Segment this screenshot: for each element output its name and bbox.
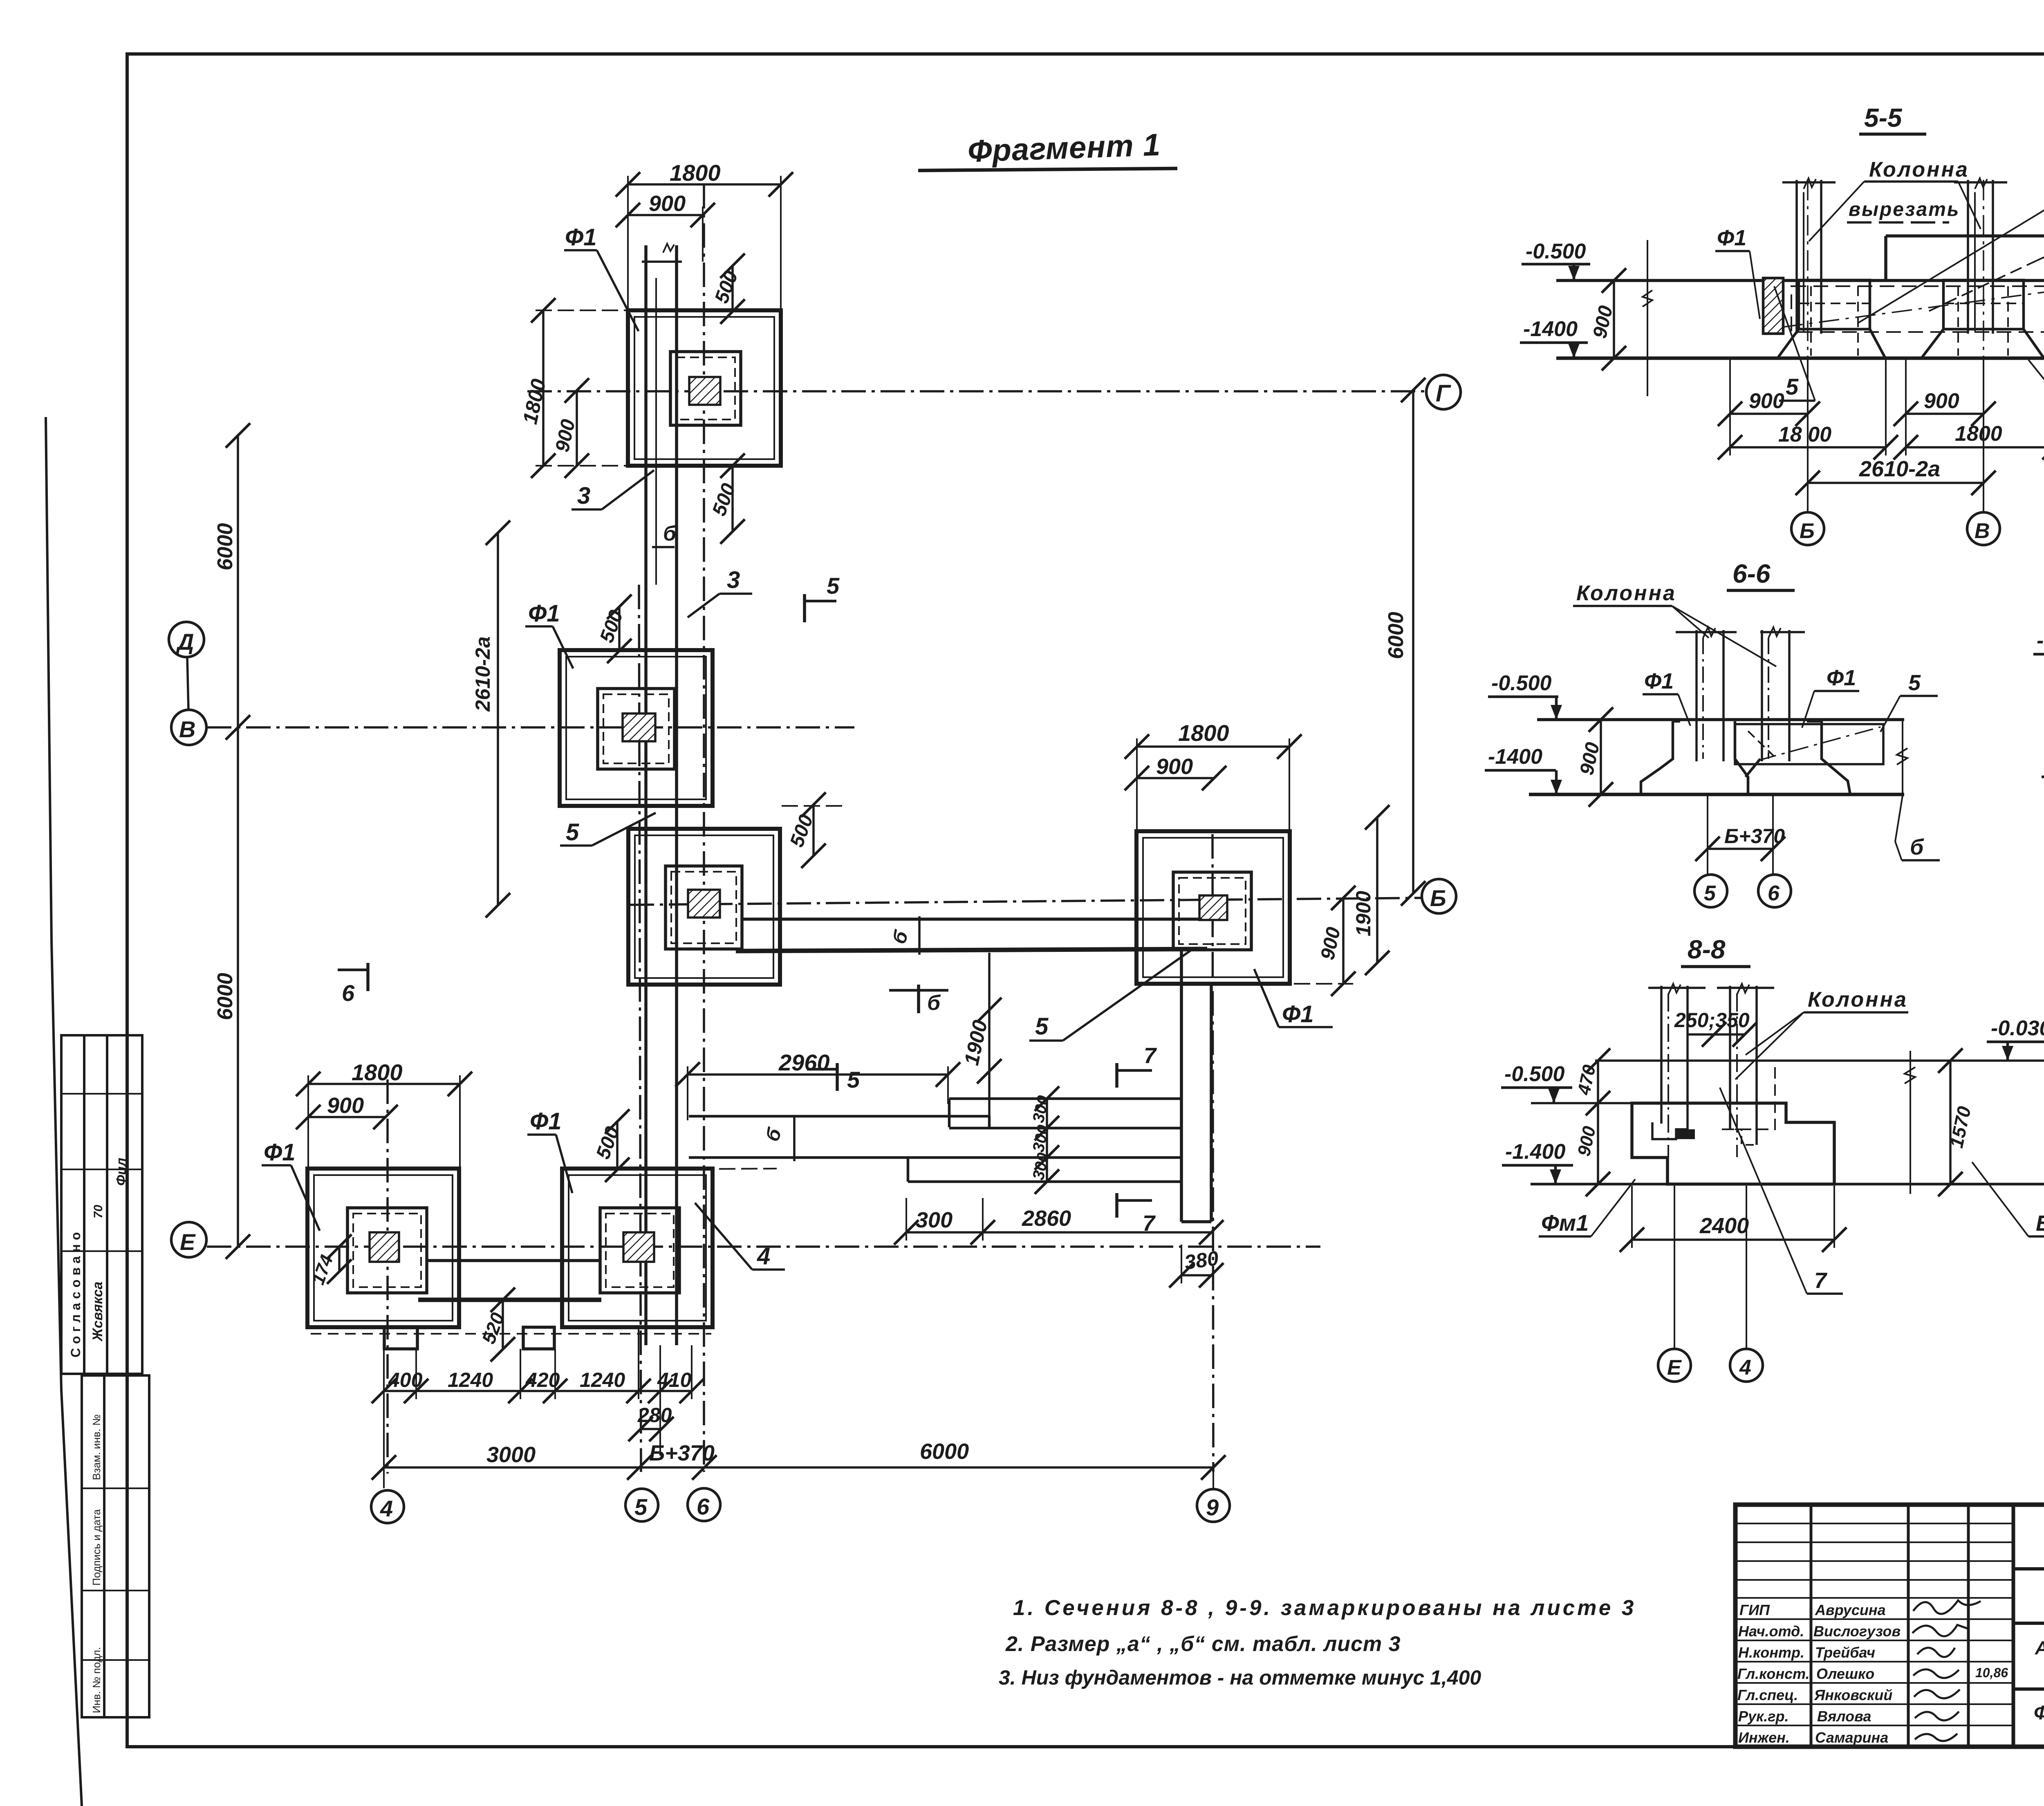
dim 250;350 <box>1674 1009 1750 1032</box>
svg-text:Колонна: Колонна <box>1576 581 1676 605</box>
svg-text:-1.400: -1.400 <box>1505 1140 1566 1164</box>
wall aux thin line <box>655 278 657 585</box>
dim 500 right of axis5 Е foundation <box>616 1122 619 1170</box>
svg-text:1800: 1800 <box>1955 422 2002 446</box>
foundation F1 row В plinth <box>598 689 675 769</box>
svg-text:Гл.конст.: Гл.конст. <box>1737 1665 1810 1682</box>
svg-text:5: 5 <box>1704 882 1716 905</box>
svg-text:Административный корпус: Административный корпус <box>2035 1637 2044 1658</box>
hidden dash line under Е foundations <box>311 1333 711 1335</box>
svg-text:6: 6 <box>697 1494 710 1519</box>
svg-text:3: 3 <box>577 482 590 509</box>
svg-text:2610-2а: 2610-2а <box>1859 457 1940 481</box>
vertical strip left edge <box>1180 951 1183 1222</box>
svg-text:7: 7 <box>1144 1043 1157 1068</box>
section 5-5 title <box>1864 103 1903 132</box>
wall top tick <box>642 260 682 263</box>
svg-text:4: 4 <box>757 1243 770 1270</box>
dim 1800 left vertical of Г foundation <box>542 310 545 466</box>
label Колонна 6-6 <box>1576 581 1676 605</box>
bottom dim chain 3000 / Б+370 / 6000 <box>384 1466 1213 1469</box>
left margin lower stamp table <box>82 1375 149 1717</box>
svg-text:Фм1: Фм1 <box>1541 1210 1589 1236</box>
svg-text:5: 5 <box>827 573 840 599</box>
dim 280 <box>641 1428 661 1430</box>
lower walls: line 2 right <box>949 1127 1181 1130</box>
lower walls: step vertical mid <box>988 1116 991 1128</box>
right footing pier <box>1943 280 2024 329</box>
dim 380 <box>1181 1274 1211 1277</box>
foundation Фм1 outline <box>1632 1103 1834 1184</box>
dim 900 below left <box>1730 413 1808 415</box>
svg-text:Ф1: Ф1 <box>530 1108 562 1135</box>
svg-text:Взам. инв. №: Взам. инв. № <box>90 1414 103 1480</box>
svg-text:Ф1: Ф1 <box>1282 1001 1314 1028</box>
columns 6-6 right <box>1761 630 1763 761</box>
long wall line 3 right <box>675 245 678 1345</box>
level mark -1.400 <box>1523 317 1578 341</box>
axis bubble Г <box>1426 375 1461 409</box>
dim 900 rotated 88 <box>1597 1103 1599 1184</box>
left footing pier <box>1799 280 1870 329</box>
svg-text:410: 410 <box>657 1369 692 1391</box>
svg-text:Б+370: Б+370 <box>649 1441 715 1465</box>
axis bubble Е <box>171 1222 206 1257</box>
svg-text:Колонна: Колонна <box>1808 988 1908 1012</box>
dim 1800 top <box>628 183 781 186</box>
section mark 7 top <box>1115 1063 1118 1088</box>
level mark -0.500 <box>1526 240 1586 263</box>
label Б 88 <box>2036 1211 2044 1236</box>
dim 900 above axis9 foundation <box>1137 777 1214 779</box>
axis bubble 5 <box>625 1489 658 1521</box>
svg-text:1900: 1900 <box>1352 891 1375 936</box>
axis row Г dash-dot <box>527 390 1426 393</box>
ribbon footing row Б top line <box>742 918 1202 921</box>
svg-text:250;350: 250;350 <box>1674 1009 1750 1032</box>
extension lines to chain <box>383 1345 385 1399</box>
title Фрагмент 1 <box>967 128 1161 169</box>
foundation F1 row Г plinth <box>670 352 741 425</box>
ground line -0.500 <box>1556 279 2044 282</box>
label 7 88 <box>1814 1268 1828 1293</box>
right footing 6-6 <box>1807 721 1850 794</box>
vertical strip bottom <box>1181 1220 1211 1223</box>
axis bubble Д above В <box>169 622 204 657</box>
svg-text:В: В <box>179 716 195 742</box>
svg-text:Ф1: Ф1 <box>565 224 597 251</box>
dim 500 right of Б foundation <box>812 805 815 856</box>
svg-text:1800: 1800 <box>1178 720 1229 746</box>
columns 8-8 <box>1660 986 1663 1124</box>
foundation F1 row В outer <box>560 650 713 806</box>
dim 520 rotated <box>502 1300 504 1349</box>
column in row Г foundation <box>689 377 720 405</box>
svg-text:Гл.спец.: Гл.спец. <box>1737 1687 1798 1703</box>
right ref line 6-6 <box>1902 720 1903 794</box>
svg-text:2960: 2960 <box>778 1050 830 1075</box>
svg-text:6000: 6000 <box>920 1439 969 1464</box>
dim 2960 <box>688 1073 948 1076</box>
foundation F1 row Б outer <box>628 829 780 985</box>
dim 500 above В foundation <box>618 607 621 651</box>
label 5 right 6-6 <box>1908 671 1921 695</box>
foundation F1 row Е axis4 plinth <box>347 1208 427 1293</box>
svg-text:Е: Е <box>180 1229 196 1255</box>
dim 2610-2a <box>1808 482 1983 484</box>
label Ф1 axis9 foundation <box>1282 1001 1314 1028</box>
svg-text:1. Сечения 8-8 , 9-9. замаркир: 1. Сечения 8-8 , 9-9. замаркированы на л… <box>1013 1596 1636 1620</box>
top level line 88 <box>1595 1059 2044 1062</box>
foundation F1 row Е axis4 outer <box>307 1169 459 1327</box>
svg-text:18 00: 18 00 <box>1778 423 1831 446</box>
svg-text:б: б <box>927 991 941 1015</box>
level -0.500 <box>1491 671 1552 695</box>
labels Ф1 6-6 <box>1644 669 1674 693</box>
label Колонна 8-8 <box>1808 988 1908 1012</box>
axis col 6 dash-dot <box>703 184 705 1472</box>
bubble 4 88 <box>1746 1186 1747 1348</box>
level -1400 <box>1488 745 1542 769</box>
lower walls: line 3 <box>689 1156 1181 1159</box>
bubble В below 5-5 <box>1967 512 2000 545</box>
section mark 5 top <box>803 594 806 622</box>
axis dash verticals through section <box>1807 180 1809 358</box>
bubble Е 88 <box>1674 1186 1675 1348</box>
svg-text:-1400: -1400 <box>1523 317 1578 341</box>
axis col 9 dash-dot <box>1213 834 1213 1472</box>
axis row Е dash-dot <box>207 1245 1320 1248</box>
svg-text:900: 900 <box>1156 754 1193 779</box>
dashed column inside foundation 88 <box>1730 1061 1775 1129</box>
svg-text:Г: Г <box>1436 380 1451 407</box>
svg-text:Янковский: Янковский <box>1814 1687 1892 1703</box>
section mark 6 left <box>366 963 370 991</box>
svg-text:4: 4 <box>380 1496 393 1521</box>
bubble Б below 5-5 <box>1791 512 1824 545</box>
dashed wall outline behind piers <box>1791 286 2044 332</box>
right dim 1900 <box>1376 817 1378 963</box>
pier tab mid <box>523 1327 554 1349</box>
label Колонна <box>1869 158 1969 182</box>
svg-text:5: 5 <box>1786 374 1799 399</box>
lower walls: line 2 left <box>689 1115 989 1118</box>
svg-text:Подпись и дата: Подпись и дата <box>90 1509 103 1586</box>
svg-text:Самарина: Самарина <box>1815 1729 1888 1746</box>
section mark 7 bottom <box>1115 1193 1118 1218</box>
left paper torn edge <box>46 417 82 1806</box>
svg-text:9: 9 <box>1206 1494 1219 1520</box>
foundation F1 row Б axis 9 outer <box>1136 831 1290 984</box>
slab top line -0.030 <box>1886 234 2044 238</box>
label б right 6-6 <box>1910 835 1924 859</box>
label 5 lower left <box>1786 374 1799 399</box>
svg-text:Б: Б <box>1430 885 1446 911</box>
svg-text:6000: 6000 <box>213 973 237 1020</box>
ref line with z 88 <box>1910 1051 1911 1194</box>
dim 2400 <box>1632 1238 1834 1241</box>
column in row Б foundation <box>688 890 720 918</box>
svg-text:5: 5 <box>566 819 579 846</box>
svg-text:б: б <box>1910 835 1924 859</box>
svg-text:Ф1: Ф1 <box>1827 666 1856 690</box>
svg-text:Инв. № подл.: Инв. № подл. <box>90 1647 103 1713</box>
svg-text:3. Низ фундаментов - на отмет: 3. Низ фундаментов - на отметке минус 1,… <box>999 1666 1481 1689</box>
top line 6-6 <box>1537 718 1904 721</box>
dim 900 vertical <box>1613 280 1615 358</box>
svg-text:-0.030: -0.030 <box>1991 1016 2044 1040</box>
dim 174 left of axis4 <box>338 1247 341 1272</box>
dim 470 rotated <box>1597 1061 1599 1103</box>
svg-text:5-5: 5-5 <box>1864 103 1903 132</box>
svg-text:Нач.отд.: Нач.отд. <box>1738 1623 1804 1640</box>
svg-text:6: 6 <box>342 980 355 1006</box>
svg-text:3000: 3000 <box>486 1443 536 1467</box>
svg-text:7: 7 <box>1814 1268 1828 1293</box>
base line -1.400 <box>1556 357 2044 360</box>
pier tab below axis4 foundation <box>384 1327 417 1349</box>
extension to bubbles 6-6 <box>1707 794 1708 875</box>
svg-text:400: 400 <box>388 1369 423 1391</box>
title block left column dividers <box>1810 1505 1813 1747</box>
svg-text:380: 380 <box>1183 1247 1220 1274</box>
diagonal detail line <box>1782 286 2044 327</box>
svg-text:6-6: 6-6 <box>1732 559 1771 588</box>
label б on wall <box>663 522 677 545</box>
bottom dim chain 400-1240-420-1240-410 <box>384 1390 692 1392</box>
axis bubble В <box>171 710 206 745</box>
svg-text:1240: 1240 <box>580 1369 625 1391</box>
link line between Д and В bubbles <box>187 657 188 710</box>
wall between Е foundations top <box>427 1259 600 1262</box>
level -0.030 88 <box>1991 1016 2044 1040</box>
svg-text:Б: Б <box>1800 519 1815 543</box>
svg-text:4: 4 <box>1739 1356 1751 1380</box>
left footing 6-6 <box>1641 721 1673 794</box>
column in axis5 row Е foundation <box>623 1232 654 1262</box>
section 8-8 title <box>1688 935 1726 964</box>
svg-text:Б+370: Б+370 <box>1724 825 1785 848</box>
label Ф1 axis4 <box>264 1139 296 1166</box>
svg-text:8-8: 8-8 <box>1688 935 1726 964</box>
dim 900 above axis4 foundation <box>308 1116 385 1118</box>
svg-text:Ф1: Ф1 <box>264 1139 296 1166</box>
svg-text:Трейбач: Трейбач <box>1815 1644 1875 1661</box>
title block left rows <box>1735 1523 2013 1725</box>
axis row Б dash-dot <box>630 898 1422 905</box>
svg-text:1800: 1800 <box>352 1059 403 1085</box>
svg-text:5: 5 <box>1908 671 1921 695</box>
svg-text:Ф1: Ф1 <box>1644 669 1674 693</box>
dim 900 vertical 6-6 <box>1600 720 1602 794</box>
column in axis4 foundation <box>370 1232 399 1262</box>
svg-text:Б: Б <box>2036 1211 2044 1236</box>
svg-text:280: 280 <box>637 1404 672 1427</box>
label вырезать <box>1849 199 1960 220</box>
dim 900 right of axis9 foundation <box>1342 898 1345 984</box>
dim 900 left vertical of Г foundation <box>576 390 578 466</box>
level -0.500 88 <box>1504 1062 1565 1086</box>
ribbon footing row Б bottom line <box>736 949 1207 951</box>
svg-text:Согласовано: Согласовано <box>68 1228 83 1357</box>
svg-text:Ф1: Ф1 <box>1717 226 1746 250</box>
wall top hook mark <box>663 244 674 253</box>
columns 6-6 left <box>1695 630 1698 761</box>
svg-text:Ф1: Ф1 <box>528 600 560 627</box>
dim 1800 below right <box>1906 446 2044 449</box>
axis bubble 9 <box>1197 1489 1230 1522</box>
svg-text:900: 900 <box>1749 389 1784 413</box>
section mark 6 (Тб) right <box>917 985 920 1013</box>
svg-text:2610-2а: 2610-2а <box>471 637 494 712</box>
svg-text:-0.500: -0.500 <box>1491 671 1552 695</box>
hatched wall strip <box>1763 278 1783 334</box>
svg-text:900: 900 <box>327 1093 364 1118</box>
axis bubble 6 <box>688 1488 720 1521</box>
axis row В dash-dot <box>207 726 854 729</box>
svg-text:Вялова: Вялова <box>1817 1708 1871 1725</box>
label 4 leader <box>757 1243 770 1270</box>
vertical strip right edge <box>1210 984 1213 1222</box>
axis col 5 dash-dot <box>639 585 641 1472</box>
label 3 above В foundation <box>727 567 740 593</box>
base line 88 <box>1531 1183 2044 1186</box>
svg-text:Фил: Фил <box>114 1158 129 1186</box>
label Ф1 upper left <box>1717 226 1746 250</box>
right dim 6000 between Г and Б <box>1412 390 1414 893</box>
svg-text:6000: 6000 <box>1384 612 1408 659</box>
label Фм1 <box>1541 1210 1589 1236</box>
svg-text:Фундаменты. Фрагмент 1.: Фундаменты. Фрагмент 1. <box>2034 1702 2044 1724</box>
foundation F1 axis 9 plinth <box>1173 872 1251 950</box>
svg-text:Е: Е <box>1667 1356 1682 1380</box>
svg-text:6000: 6000 <box>213 523 237 570</box>
bubble 6 below 6-6 <box>1758 875 1791 907</box>
svg-text:Колонна: Колонна <box>1869 158 1969 182</box>
section 6-6 title <box>1732 559 1771 588</box>
svg-text:Фрагмент 1: Фрагмент 1 <box>967 128 1161 169</box>
long wall line 3 left <box>644 245 648 1345</box>
svg-text:5: 5 <box>1035 1013 1049 1040</box>
dim 1800 above axis9 foundation <box>1137 745 1289 748</box>
svg-text:2400: 2400 <box>1699 1214 1749 1238</box>
svg-text:-0.500: -0.500 <box>1504 1062 1565 1086</box>
column left pair <box>1795 180 1798 334</box>
axis col 4 dash-dot <box>386 1079 389 1474</box>
leader 5 to ribbon <box>1035 1013 1049 1040</box>
notes text block <box>999 1596 1636 1689</box>
dim 1570 rotated <box>1949 1061 1952 1184</box>
wall rect dashed 6-6 <box>1735 724 1883 764</box>
dim 500 lower right of Г foundation <box>731 466 734 532</box>
left dim line 6000/6000 <box>237 435 239 1247</box>
foundation F1 row Е axis5 outer <box>562 1169 713 1327</box>
label 3 under Г foundation <box>577 482 590 509</box>
svg-text:10,86: 10,86 <box>1975 1665 2008 1680</box>
svg-text:5: 5 <box>847 1067 860 1093</box>
svg-text:Вислогузов: Вислогузов <box>1813 1623 1901 1640</box>
dims 300 300 300 rotated <box>1046 1099 1048 1182</box>
svg-text:-0.500: -0.500 <box>1526 240 1586 263</box>
label б rotated on ribbon <box>888 928 913 947</box>
title block staff labels <box>1737 1602 2008 1746</box>
extension lines <box>1729 358 1731 455</box>
bubble 5 below 6-6 <box>1694 875 1727 907</box>
column right pair <box>1967 180 1969 334</box>
level -0.080 <box>2037 629 2044 653</box>
dim 500 upper right of Г foundation <box>731 266 734 312</box>
svg-text:вырезать: вырезать <box>1849 199 1960 220</box>
svg-text:5: 5 <box>634 1494 648 1520</box>
svg-text:6: 6 <box>1768 882 1780 905</box>
section mark 5 mid <box>836 1063 839 1091</box>
svg-text:70: 70 <box>92 1205 105 1218</box>
svg-text:Аврусина: Аврусина <box>1815 1602 1886 1618</box>
svg-text:300: 300 <box>916 1208 953 1232</box>
svg-text:2860: 2860 <box>1022 1206 1071 1231</box>
svg-text:Жсвякса: Жсвякса <box>90 1281 105 1342</box>
ref line with break <box>1647 240 1648 396</box>
left dim 2610-2a <box>497 533 499 905</box>
svg-text:ГИП: ГИП <box>1739 1602 1770 1618</box>
svg-text:900: 900 <box>1924 389 1959 413</box>
wall between Е foundations bottom <box>418 1298 601 1302</box>
dim 1800 above axis4 foundation <box>308 1083 460 1085</box>
column in row В foundation <box>623 713 655 741</box>
level -1.400 88 <box>1505 1140 1566 1164</box>
svg-text:В: В <box>1975 519 1990 543</box>
left margin upper stamp table <box>61 1035 142 1374</box>
axis bubble 4 <box>371 1490 404 1523</box>
svg-text:420: 420 <box>525 1369 560 1391</box>
label Ф1 row В <box>528 600 560 627</box>
svg-text:Д: Д <box>176 629 194 655</box>
svg-text:Олешко: Олешко <box>1816 1665 1874 1682</box>
svg-text:-0.080: -0.080 <box>2037 629 2044 653</box>
svg-text:900: 900 <box>649 191 686 216</box>
inner steps 88 <box>1652 1122 1688 1139</box>
label Ф1 row Г <box>565 224 597 251</box>
svg-text:1240: 1240 <box>448 1369 493 1391</box>
main title block outer <box>1735 1505 2044 1747</box>
main area: 416-1-20 3.87-КЖ cell <box>2013 1567 2044 1570</box>
dim 300 / 2860 bottom <box>906 1231 1211 1234</box>
svg-text:-1400: -1400 <box>1488 745 1542 769</box>
lower walls: line 1 <box>949 1097 1181 1100</box>
foundation F1 row Е axis5 plinth <box>600 1208 679 1293</box>
base line 6-6 <box>1529 793 1904 796</box>
svg-text:Инжен.: Инжен. <box>1738 1729 1790 1746</box>
svg-text:Рук.гр.: Рук.гр. <box>1738 1708 1789 1725</box>
foundation F1 row Г outer <box>628 310 781 466</box>
svg-text:Н.контр.: Н.контр. <box>1738 1644 1804 1661</box>
signatures squiggles <box>1912 1600 1981 1741</box>
label 5 left of Б foundation <box>566 819 579 846</box>
svg-text:б: б <box>663 522 677 545</box>
svg-text:2. Размер „а“ , „б“ см. табл.: 2. Размер „а“ , „б“ см. табл. лист 3 <box>1005 1632 1401 1656</box>
label Ф1 axis5 row Е <box>530 1108 562 1135</box>
lower walls: line 4 <box>908 1180 1181 1183</box>
dim 1900 inner <box>988 953 991 1123</box>
column in axis 9 foundation <box>1199 895 1227 920</box>
dim 900 top <box>628 214 703 216</box>
dim Б+370 <box>1708 848 1773 850</box>
dim 900 below right <box>1906 413 1983 415</box>
lower walls: step verticals <box>907 1158 910 1182</box>
svg-text:3: 3 <box>727 567 740 593</box>
axis bubble Б <box>1422 879 1456 913</box>
svg-text:1800: 1800 <box>670 160 721 186</box>
